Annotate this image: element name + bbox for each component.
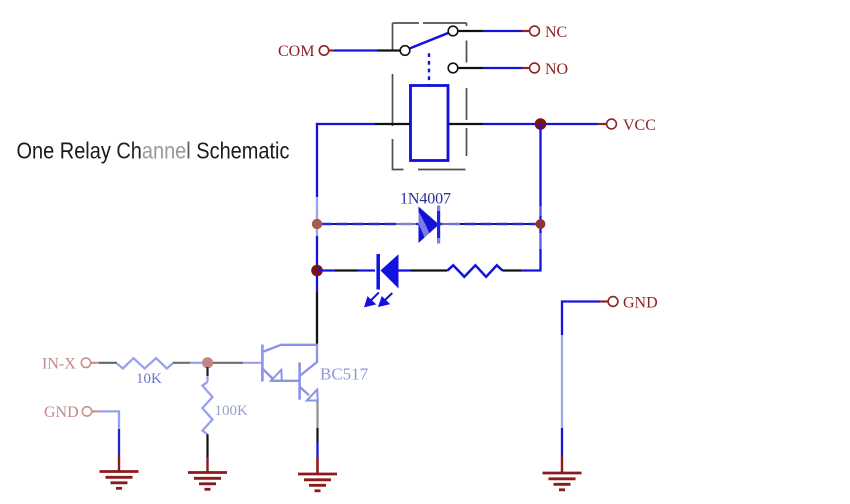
svg-text:GND: GND: [623, 295, 658, 312]
T1 collector + T2 collector path: [262, 345, 317, 376]
relay NC contact pin: [448, 26, 458, 36]
svg-text:COM: COM: [278, 43, 314, 60]
wire COM terminal to contact: [334, 49, 377, 51]
relay NO contact pin: [448, 63, 458, 73]
ground (right): [543, 456, 582, 490]
wire (pin lead, NO): [458, 67, 483, 69]
svg-text:GND: GND: [44, 404, 79, 421]
wire node down to 100K: [206, 367, 208, 376]
node junction right: [536, 219, 546, 229]
transistor Q1 BC517: [262, 345, 317, 401]
wire 1N4007 row (dashed): [317, 223, 541, 225]
node junction left (faded): [312, 219, 322, 229]
diode D1 1N4007: [419, 207, 440, 244]
node VCC junction: [535, 118, 547, 130]
ground (below 100K): [188, 457, 227, 489]
LED arrows: [366, 293, 393, 307]
svg-text:IN-X: IN-X: [42, 356, 76, 373]
terminal NO: [530, 63, 540, 73]
wire GND right: [562, 302, 600, 336]
wire (pin lead, coil left): [375, 123, 410, 125]
wire NO to terminal: [483, 67, 522, 69]
wire GND left: [100, 411, 119, 429]
wire (pin lead, COM contact): [377, 49, 400, 51]
relay pivot contact pin: [400, 46, 410, 56]
T2 emitter: [300, 387, 309, 396]
relay armature: [409, 33, 448, 49]
wire (pin lead, coil right): [449, 123, 483, 125]
relay K1 dashed enclosure: [393, 23, 467, 170]
resistor 100K: [202, 382, 212, 434]
svg-text:BC517: BC517: [320, 365, 369, 384]
T1 emitter: [262, 369, 272, 379]
wire left bus (to transistor collector): [316, 292, 318, 345]
svg-text:NC: NC: [545, 24, 567, 41]
node LED row junction: [311, 265, 323, 277]
T1 base bar: [261, 345, 264, 382]
wire left bus (coil corner down): [316, 123, 318, 197]
wire (pin lead, NC): [458, 30, 483, 32]
svg-text:NO: NO: [545, 61, 568, 78]
wire LED to resistor: [399, 269, 412, 271]
svg-text:VCC: VCC: [623, 117, 656, 134]
terminal VCC: [607, 119, 617, 129]
wire IN-X to 10K: [99, 362, 117, 364]
wire 100K to ground: [206, 434, 208, 457]
relay armature link (dashed): [428, 53, 430, 86]
resistor R (LED series): [447, 265, 502, 277]
svg-text:10K: 10K: [136, 371, 162, 387]
wire VCC node to terminal: [541, 123, 599, 125]
svg-text:1N4007: 1N4007: [400, 191, 451, 208]
node base junction: [202, 357, 213, 368]
svg-text:100K: 100K: [215, 403, 249, 419]
wire emitter bus down: [316, 401, 318, 428]
wire right bus (VCC node down to LED row): [539, 124, 541, 271]
LED D2: [376, 254, 380, 290]
wire NC to terminal: [483, 30, 522, 32]
relay coil K1: [411, 86, 449, 161]
wire coil row left: [316, 123, 375, 125]
wire resistor to right bus: [503, 269, 521, 271]
svg-text:One Relay Channel Schematic: One Relay Channel Schematic: [17, 138, 290, 164]
T2 base bar: [298, 363, 301, 400]
wire coil to VCC node: [483, 123, 541, 125]
ground (emitter): [298, 457, 337, 491]
resistor 10K: [117, 358, 173, 368]
wire node to base: [213, 362, 243, 364]
wire 10K to node: [173, 362, 191, 364]
terminal NC: [530, 26, 540, 36]
ground (input side): [100, 456, 139, 488]
terminal GND (right): [608, 297, 618, 307]
wire LED row left: [317, 269, 335, 271]
